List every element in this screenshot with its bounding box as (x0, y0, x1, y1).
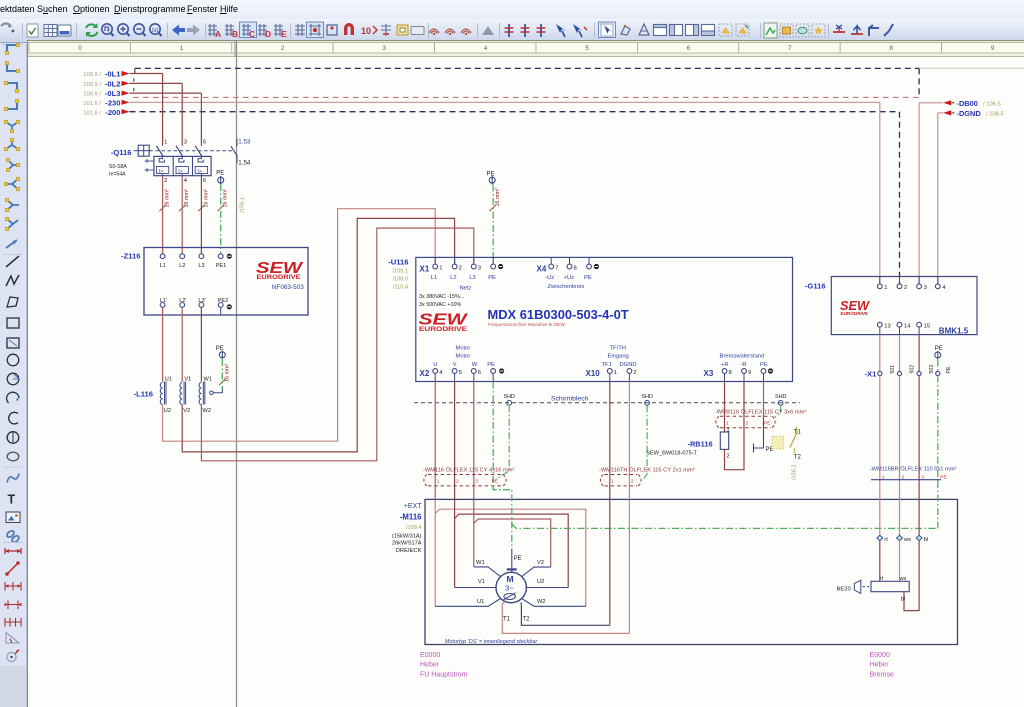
svg-text:PE: PE (760, 362, 768, 368)
wire W phase into box, branch to V2 (474, 499, 551, 567)
svg-text:W2: W2 (537, 599, 546, 605)
wire ws to brake coil (899, 541, 907, 582)
svg-text:V2: V2 (183, 408, 190, 414)
svg-text:TF1: TF1 (602, 362, 612, 368)
svg-text:-0L3: -0L3 (105, 89, 121, 98)
wire G116-13 to terminal 501 (879, 335, 881, 372)
svg-text:1: 1 (614, 370, 617, 376)
svg-text:X3: X3 (704, 369, 714, 378)
svg-text:26kW/S17A: 26kW/S17A (392, 540, 422, 546)
svg-text:/156.2: /156.2 (792, 464, 798, 480)
svg-text:101.6 /: 101.6 / (83, 101, 101, 107)
wire L2 drop to Q116 (181, 83, 183, 145)
wire bl loop to brake coil (901, 541, 919, 611)
Schirmblech shield rail (414, 396, 800, 403)
svg-text:5: 5 (203, 140, 206, 146)
svg-text:502: 502 (910, 365, 916, 374)
svg-text:L1: L1 (160, 263, 166, 269)
svg-text:-200: -200 (105, 108, 120, 117)
svg-text:3x 500VAC +10%: 3x 500VAC +10% (419, 302, 462, 308)
terminal strip X1 (864, 365, 951, 379)
svg-text:16 mm²: 16 mm² (495, 188, 501, 206)
thermal contact T1 T2 yellow (772, 427, 801, 461)
wire L3 drop to Q116 (200, 93, 202, 146)
wire U phase into box, branch to W2 (435, 499, 586, 606)
svg-text:SEW_BW018-075-T: SEW_BW018-075-T (646, 451, 697, 457)
PE source symbol at L116 (216, 346, 226, 359)
svg-text:MDX 61B0300-503-4-0T: MDX 61B0300-503-4-0T (488, 307, 629, 322)
cable WRB116 label (715, 408, 806, 415)
svg-text:3: 3 (921, 475, 924, 481)
line filter Z116 body (144, 248, 308, 316)
PE source symbol above drive (487, 171, 496, 184)
cross-reference /156.2 (792, 464, 798, 480)
svg-text:X10: X10 (586, 369, 601, 378)
net -0L1 source arrow and label (83, 70, 129, 79)
svg-text:L1: L1 (431, 275, 437, 281)
svg-text:3~: 3~ (505, 584, 514, 593)
PE source symbol above X1 strip (935, 346, 943, 371)
svg-text:NF063-503: NF063-503 (272, 284, 304, 291)
svg-text:-R: -R (741, 362, 747, 368)
svg-text:+Uz: +Uz (564, 275, 575, 281)
wire 501 down to brake cable (879, 376, 881, 536)
breaker Q116 aux contact 1.53/1.54 (231, 139, 251, 167)
svg-text:-WRB116 ÖLFLEX 115 CY 3x6 mm²: -WRB116 ÖLFLEX 115 CY 3x6 mm² (715, 408, 806, 415)
svg-text:501: 501 (890, 365, 896, 374)
svg-text:15: 15 (924, 324, 930, 330)
svg-text:9: 9 (748, 370, 751, 376)
svg-text:ws: ws (903, 537, 911, 543)
motor thermal contact wire T2 (521, 499, 610, 625)
brake terminal bl (916, 535, 928, 543)
svg-text:1: 1 (611, 479, 614, 485)
svg-text:Bremswiderstand: Bremswiderstand (720, 354, 765, 360)
svg-text:8: 8 (729, 370, 732, 376)
SEW logo on G116 (840, 299, 870, 316)
svg-text:5: 5 (459, 370, 462, 376)
svg-text:100.9 /: 100.9 / (83, 82, 101, 88)
motor thermal contact wire T1 (502, 499, 629, 633)
svg-text:-L116: -L116 (134, 389, 153, 398)
application toolbar (0, 19, 1024, 43)
svg-text:-WM116BR ÖLFLEX 110 5x1 mm²: -WM116BR ÖLFLEX 110 5x1 mm² (870, 465, 957, 472)
cable WM116TH label (599, 466, 695, 473)
svg-text:U2: U2 (537, 579, 544, 585)
motor M116 labels (392, 503, 422, 554)
svg-text:FU Hauptstrom: FU Hauptstrom (420, 671, 468, 678)
function text left: E0000 Heber FU Hauptstrom (420, 652, 468, 679)
svg-text:PE1: PE1 (216, 263, 227, 269)
svg-text:Heber: Heber (420, 662, 440, 669)
wire DGND drop (938, 113, 943, 284)
drive Netz ratings text (419, 285, 472, 308)
wire 0L2 solid segment (130, 78, 183, 83)
page frame top edge right (918, 67, 1024, 69)
svg-text:U: U (433, 362, 437, 368)
motor terminal U2 (526, 579, 568, 587)
wire PE green branch to brake circuit (512, 481, 938, 528)
cable WM116BR symbol (871, 475, 947, 481)
svg-text:E0000: E0000 (870, 652, 890, 659)
svg-text:W: W (472, 362, 478, 368)
svg-text:1.54: 1.54 (238, 159, 251, 166)
svg-text:Eingang: Eingang (608, 354, 629, 360)
shield wire SHD3 to cable (775, 405, 781, 417)
svg-text:Frequenzumrichter Movidrive B: Frequenzumrichter Movidrive B 30kW (488, 322, 566, 327)
motor terminal V1 (455, 579, 496, 587)
svg-text:Schirmblech: Schirmblech (551, 396, 589, 403)
svg-text:X2: X2 (420, 369, 430, 378)
svg-text:-RB116: -RB116 (688, 439, 713, 448)
svg-text:3: 3 (475, 479, 478, 485)
svg-text:V2: V2 (537, 560, 544, 566)
shield point SHD 3 (775, 394, 786, 405)
svg-text:-WM116TH ÖLFLEX 115 CY 2x1 mm²: -WM116TH ÖLFLEX 115 CY 2x1 mm² (599, 466, 695, 473)
svg-text:T2: T2 (794, 454, 802, 460)
svg-text:14: 14 (904, 324, 911, 330)
svg-text:PE: PE (514, 556, 522, 562)
svg-text:1: 1 (882, 475, 885, 481)
svg-text:-WM116 ÖLFLEX 115 CY 4x16 mm²: -WM116 ÖLFLEX 115 CY 4x16 mm² (423, 466, 514, 473)
wire 0L3 solid segment (130, 88, 202, 93)
svg-text:3: 3 (184, 140, 187, 146)
svg-text:W2: W2 (202, 408, 211, 414)
left tool palette (0, 43, 27, 707)
svg-text:T1: T1 (503, 617, 511, 623)
svg-text:SHD: SHD (775, 394, 786, 400)
svg-text:TF/TH: TF/TH (610, 346, 626, 352)
wire DB00 drop (919, 68, 943, 283)
svg-text:L2: L2 (179, 263, 185, 269)
svg-text:PE: PE (946, 366, 952, 373)
wire 503 down to brake cable (918, 376, 920, 536)
wire 230 drop to G116 (879, 102, 881, 283)
choke L116 winding U1/U2 (160, 376, 172, 414)
cable WM116TH symbol (600, 475, 641, 486)
svg-text:101.6 /: 101.6 / (83, 111, 101, 117)
svg-text:Ie=54A: Ie=54A (109, 172, 126, 178)
svg-text:4: 4 (942, 285, 946, 291)
page column divider line (235, 40, 237, 707)
wire 0L1 dashed bus (135, 68, 919, 73)
svg-text:Motor: Motor (456, 346, 471, 352)
wire 502 down to brake cable (899, 376, 901, 536)
svg-text:Motortyp 'DS' = innenliegend s: Motortyp 'DS' = innenliegend steckbar (445, 639, 539, 645)
wire 0L1 solid segment (130, 73, 163, 75)
svg-text:2: 2 (164, 178, 167, 184)
breaker Q116 pole 3 contact, pins 5/6 (195, 140, 206, 184)
line filter Z116 label (121, 251, 140, 260)
svg-text:3: 3 (924, 285, 927, 291)
svg-text:1: 1 (439, 265, 442, 271)
svg-text:2: 2 (746, 420, 749, 426)
wire V phase into box, branch to U2 (455, 499, 569, 587)
wire L1 drop to Q116 (162, 74, 164, 146)
svg-text:/110.4: /110.4 (393, 284, 408, 290)
wire rt to brake coil (880, 541, 884, 582)
wire PE to choke body (210, 359, 223, 395)
note text motor type (445, 639, 539, 645)
cable WM116 symbol (424, 475, 506, 486)
net -DB00 destination arrow and label (943, 99, 1001, 108)
svg-text:2: 2 (456, 479, 459, 485)
svg-text:1: 1 (164, 140, 167, 146)
cable WM116 label (423, 466, 514, 473)
motor PE ground bar (507, 549, 522, 572)
svg-text:V: V (453, 362, 457, 368)
svg-text:-DGND: -DGND (957, 109, 982, 118)
wire PE green to Z116 (220, 184, 222, 253)
svg-text:6: 6 (478, 370, 481, 376)
svg-text:X4: X4 (537, 264, 547, 273)
svg-text:PE: PE (487, 171, 495, 177)
wire choke U to drive X1-1 (163, 209, 436, 442)
svg-text:SHD: SHD (504, 394, 515, 400)
svg-text:503: 503 (929, 365, 935, 374)
motor unit M116 enclosure box (425, 499, 958, 644)
svg-text:Zwischenkreis: Zwischenkreis (548, 284, 585, 290)
svg-text:Motor: Motor (456, 354, 471, 360)
frequency inverter U116 body (416, 257, 793, 381)
svg-text:Heber: Heber (870, 662, 890, 669)
svg-text:Bremse: Bremse (870, 671, 894, 678)
cable WRB116 symbol (716, 416, 775, 427)
wire X3 +R to resistor (724, 382, 726, 433)
svg-text:E0000: E0000 (420, 652, 440, 659)
svg-text:-DB00: -DB00 (957, 99, 978, 108)
svg-text:/ 106.5: / 106.5 (983, 102, 1001, 108)
shield wire SHD1 to cable (496, 405, 509, 479)
svg-text:bl: bl (924, 537, 929, 543)
svg-text:2: 2 (633, 370, 636, 376)
wire gauge labels 16mm2 under Q116 (159, 189, 228, 211)
svg-text:7: 7 (555, 265, 558, 271)
svg-text:-M116: -M116 (400, 512, 422, 521)
shield wire SHD2 to cable (643, 405, 647, 480)
svg-text:DREIECK: DREIECK (396, 548, 422, 554)
wire 230 solid bus (130, 101, 880, 103)
brake resistor RB116 (646, 427, 729, 459)
choke L116 label (134, 389, 153, 398)
svg-text:-X1: -X1 (864, 370, 877, 379)
svg-text:-Z116: -Z116 (121, 251, 140, 260)
svg-text:/156.1: /156.1 (240, 197, 246, 213)
wire G116-15 to terminal 503 (918, 335, 920, 372)
wire PE green down through cable (937, 376, 939, 481)
svg-text:BMK1.5: BMK1.5 (939, 326, 969, 335)
svg-text:1: 1 (726, 420, 729, 426)
svg-text:L3: L3 (198, 263, 204, 269)
svg-text:1: 1 (437, 479, 440, 485)
svg-text:L3: L3 (469, 275, 475, 281)
wire G116-14 to terminal 502 (899, 335, 901, 372)
svg-text:M: M (507, 574, 514, 584)
brake terminal ws (897, 535, 912, 543)
svg-text:2: 2 (459, 265, 462, 271)
svg-text:EURODRIVE: EURODRIVE (257, 275, 301, 281)
svg-text:2: 2 (631, 479, 634, 485)
svg-text:BE20: BE20 (837, 586, 851, 592)
svg-text:PE: PE (492, 479, 498, 485)
svg-text:V1: V1 (478, 579, 485, 585)
svg-text:S0-S8A: S0-S8A (109, 164, 127, 170)
svg-text:8: 8 (574, 265, 577, 271)
svg-text:PE: PE (487, 362, 495, 368)
svg-text:L3': L3' (198, 298, 205, 304)
svg-text:L2: L2 (450, 275, 456, 281)
svg-text:L2': L2' (179, 298, 186, 304)
svg-text:1: 1 (884, 285, 887, 291)
choke L116 winding W1/W2 (199, 376, 212, 414)
svg-text:SHD: SHD (642, 394, 653, 400)
svg-text:-0L2: -0L2 (105, 79, 121, 88)
frequency inverter U116 label (388, 257, 408, 290)
svg-text:1: 1 (727, 427, 730, 433)
svg-text:X1: X1 (420, 264, 430, 273)
svg-text:/ 108.5: / 108.5 (986, 112, 1004, 118)
wire X2 U V W to motor cable (435, 382, 474, 500)
breaker Q116 operator box (134, 145, 150, 156)
SEW logo on Z116 (256, 260, 304, 291)
svg-text:T1: T1 (794, 429, 802, 435)
menu bar (0, 0, 1024, 19)
svg-text:13: 13 (884, 324, 890, 330)
svg-text:2: 2 (902, 475, 905, 481)
breaker Q116 pole 1 contact, pins 1/2 (156, 140, 167, 184)
wire gauge 16mm2 above drive PE (489, 188, 501, 211)
net -0L2 source arrow and label (83, 79, 129, 88)
svg-text:4: 4 (439, 370, 443, 376)
drive X3 brake resistor terminals (704, 354, 774, 382)
svg-text:U1: U1 (477, 599, 484, 605)
svg-text:PE: PE (764, 420, 770, 426)
drive type designation MDX (488, 307, 629, 327)
svg-text:-230: -230 (105, 98, 120, 107)
svg-text:DGND: DGND (620, 362, 637, 368)
drive X10 TF input terminals (586, 346, 637, 382)
svg-text:-U116: -U116 (388, 257, 408, 266)
svg-text:rt: rt (884, 537, 888, 543)
motor M116 circle symbol (496, 572, 526, 602)
wire 200 dashed drop to G116 (899, 112, 901, 284)
function text right: E0000 Heber Bremse (870, 652, 894, 679)
svg-text:bl: bl (901, 597, 905, 603)
svg-text:PE: PE (940, 475, 946, 481)
svg-text:6: 6 (203, 178, 206, 184)
wire choke W to drive X1-3 (201, 228, 473, 461)
svg-text:-Uz: -Uz (545, 275, 554, 281)
shield point SHD 2 (642, 394, 653, 405)
net -DGND destination arrow and label (943, 109, 1004, 118)
svg-text:/109.1: /109.1 (392, 268, 408, 274)
drive X1 mains terminals (420, 257, 504, 281)
svg-text:1.53: 1.53 (238, 139, 251, 146)
wire PE green into box to motor (493, 486, 512, 549)
wire X3 -R to resistor (725, 382, 745, 470)
svg-text:EURODRIVE: EURODRIVE (419, 326, 467, 333)
wire X2 PE green (492, 382, 494, 487)
wire 200 dashed bus (130, 111, 900, 113)
svg-text:/108.0: /108.0 (392, 276, 408, 282)
svg-text:100.9 /: 100.9 / (83, 92, 101, 98)
svg-text:/109.4: /109.4 (406, 525, 422, 531)
choke L116 winding V1/V2 (180, 376, 191, 414)
svg-text:4: 4 (184, 178, 188, 184)
motor terminal W2 (522, 599, 586, 607)
svg-text:(15kW/31A): (15kW/31A) (392, 533, 422, 539)
svg-text:2: 2 (904, 285, 907, 291)
net -200 source arrow and label (83, 108, 129, 117)
svg-text:+EXT: +EXT (404, 503, 422, 510)
shield point SHD 1 (504, 394, 515, 405)
drive X2 motor terminals (420, 346, 505, 382)
svg-text:L1': L1' (160, 298, 167, 304)
svg-text:PE: PE (488, 275, 496, 281)
svg-text:PE: PE (584, 275, 592, 281)
svg-text:PE2: PE2 (218, 298, 229, 304)
net -230 source arrow and label (83, 98, 129, 107)
PE source symbol at Q116 (216, 171, 224, 185)
svg-text:-0L1: -0L1 (105, 70, 121, 79)
wire gauge 16mm2 at L116 PE (219, 364, 230, 386)
drive X4 DC-link terminals (537, 257, 600, 290)
breaker Q116 linkage dashed line (149, 150, 233, 152)
brake rectifier G116 body (831, 277, 977, 336)
svg-text:+R: +R (721, 362, 729, 368)
svg-text:T2: T2 (523, 617, 531, 623)
net -0L3 source arrow and label (83, 89, 129, 98)
breaker Q116 pole 2 contact, pins 3/4 (176, 140, 188, 184)
wire X3 PE (754, 382, 774, 453)
wire PE green to drive X1-PE (492, 185, 494, 264)
svg-text:U2: U2 (164, 408, 171, 414)
wire Q116 pole outputs to Z116 (163, 176, 202, 254)
wire Z116 outputs to choke L116 (163, 308, 202, 382)
svg-text:-G116: -G116 (805, 282, 826, 291)
svg-text:W1: W1 (476, 560, 485, 566)
brake coil BE20 (837, 580, 910, 593)
svg-text:3: 3 (478, 265, 481, 271)
brake terminal rt (877, 535, 888, 543)
wire X10 TF1 DGND to cable (610, 382, 630, 500)
svg-text:-Q116: -Q116 (111, 148, 132, 157)
circuit breaker Q116 label (109, 148, 132, 178)
wire 230 dashed bus (133, 96, 919, 98)
svg-text:PE: PE (935, 346, 943, 352)
svg-text:100.9 /: 100.9 / (83, 72, 101, 78)
motor terminal V2 (522, 560, 551, 576)
motor terminal W1 (474, 560, 501, 576)
SEW logo on U116 (419, 312, 469, 334)
cross-reference /156.1 (240, 197, 246, 213)
wire choke V to drive X1-2 (182, 218, 454, 452)
svg-text:Netz: Netz (460, 285, 472, 291)
cable WM116BR label (870, 465, 957, 472)
svg-text:EURODRIVE: EURODRIVE (841, 311, 869, 316)
svg-text:PE: PE (216, 171, 224, 177)
svg-text:2: 2 (727, 454, 730, 460)
breaker Q116 thermal-magnetic body (145, 156, 212, 175)
motor terminal U1 (435, 599, 500, 607)
svg-text:3x 380VAC -15%...: 3x 380VAC -15%... (419, 294, 464, 300)
brake rectifier G116 label (805, 282, 826, 291)
